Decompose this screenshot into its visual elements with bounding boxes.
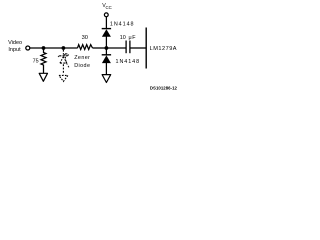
svg-text:DS101286-12: DS101286-12 — [150, 86, 178, 91]
wire capacitor to IC — [131, 47, 146, 49]
label 10 uF — [120, 35, 136, 41]
ground (dashed, below zener) — [59, 75, 68, 81]
node Vcc label — [102, 3, 112, 10]
wire D1 to node C — [105, 37, 107, 49]
svg-text:CC: CC — [106, 5, 112, 10]
svg-text:LM1279A: LM1279A — [150, 46, 177, 52]
label Zener Diode — [74, 55, 90, 69]
diode D2 1N4148 (cathode up) — [102, 55, 111, 63]
wire D2 to ground — [105, 63, 107, 75]
ground (below D2) — [102, 75, 111, 83]
wire input to resistor 30 — [30, 47, 78, 49]
wire resistor 30 to node C — [93, 47, 107, 49]
junction node C — [105, 46, 109, 50]
svg-text:Input: Input — [8, 47, 21, 53]
resistor R 75 (vertical) — [41, 48, 46, 73]
diode D1 1N4148 (cathode up) — [102, 29, 111, 37]
resistor R 30 (horizontal) — [78, 45, 93, 50]
ground (below 75) — [39, 73, 47, 81]
Vcc terminal — [104, 13, 108, 17]
junction node B (zener tap) — [62, 46, 66, 50]
op-amp U1 LM1279A box edge — [145, 28, 147, 69]
callout dashed arrow to zener — [64, 54, 69, 68]
capacitor C 10uF — [126, 41, 130, 54]
svg-text:75: 75 — [33, 59, 39, 65]
input terminal — [26, 46, 30, 50]
wire Vcc lead to D1 — [105, 17, 107, 29]
svg-text:30: 30 — [82, 35, 88, 41]
svg-text:1N4148: 1N4148 — [110, 22, 135, 28]
label Video Input — [8, 40, 22, 53]
wire node C to D2 — [105, 48, 107, 55]
svg-text:μF: μF — [129, 35, 137, 41]
junction node A (75 ohm tap) — [42, 46, 46, 50]
wire node C to capacitor — [106, 47, 125, 49]
svg-text:Diode: Diode — [74, 63, 90, 69]
svg-text:Zener: Zener — [74, 55, 90, 61]
svg-text:Video: Video — [8, 40, 22, 46]
zener diode (dashed, optional) — [58, 50, 69, 75]
svg-text:10: 10 — [120, 35, 126, 41]
svg-text:1N4148: 1N4148 — [116, 59, 141, 65]
